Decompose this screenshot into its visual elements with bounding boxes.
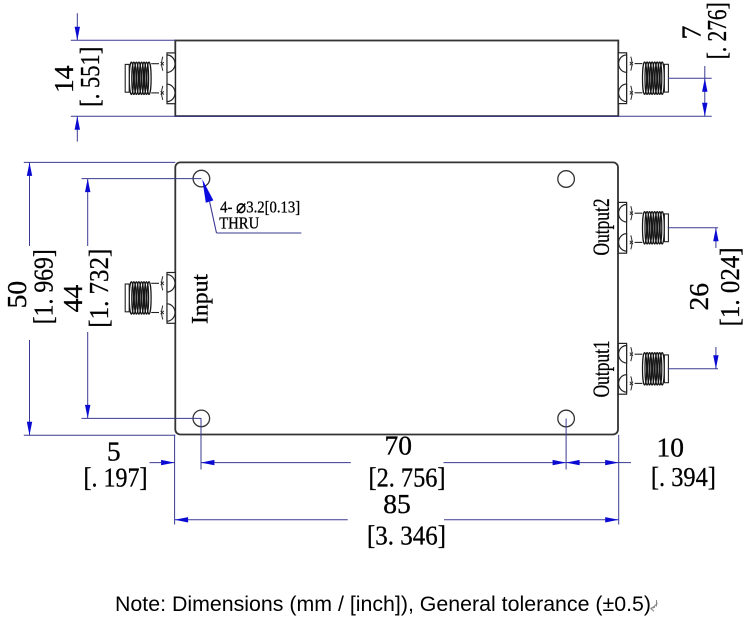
svg-text:[3. 346]: [3. 346] — [367, 520, 446, 551]
svg-text:Note: Dimensions (mm / [inch]): Note: Dimensions (mm / [inch]), General … — [115, 592, 651, 616]
svg-text:Output1: Output1 — [589, 340, 614, 397]
dimension 14 [.551] extension lines — [71, 39, 176, 41]
paragraph return mark — [651, 600, 658, 611]
dimension 14 [.551] lines and arrows — [76, 13, 78, 40]
svg-text:[. 197]: [. 197] — [84, 462, 148, 493]
svg-text:26: 26 — [683, 283, 714, 311]
extension line body left edge — [174, 435, 176, 525]
mounting hole bottom-right — [558, 410, 575, 427]
front view body — [175, 162, 618, 434]
svg-text:[. 394]: [. 394] — [651, 461, 716, 492]
svg-text:Input: Input — [188, 273, 213, 324]
extension line left hole center — [200, 418, 202, 469]
svg-text:10: 10 — [657, 431, 685, 462]
dimension 10 [.394] line and arrows — [566, 462, 619, 464]
svg-text:Output2: Output2 — [589, 199, 614, 256]
dimension 7 [.276] line and arrows — [704, 66, 706, 116]
leader line — [210, 202, 217, 233]
front view input connector — [125, 273, 175, 324]
svg-text:[. 551]: [. 551] — [74, 47, 105, 107]
dimension 44 [1.732] extension lines — [82, 178, 202, 180]
top view body — [175, 41, 618, 117]
svg-text:85: 85 — [383, 488, 411, 519]
dimension 5 [.197] line and arrow — [150, 462, 175, 464]
svg-text:70: 70 — [384, 430, 412, 461]
mounting hole bottom-left — [193, 410, 210, 427]
dimension 50 [1.969] extension lines — [24, 161, 176, 163]
front view output1 connector — [618, 343, 668, 394]
top view right SMA connector — [618, 53, 668, 104]
dimension 26 [1.024] extension lines — [668, 227, 718, 229]
dimension 26 [1.024] line and arrows — [715, 228, 717, 248]
mounting hole top-left — [193, 170, 210, 187]
dimension 50 [1.969] line and arrows — [29, 162, 31, 246]
svg-text:THRU: THRU — [219, 214, 259, 233]
svg-text:[1. 024]: [1. 024] — [714, 247, 745, 326]
leader arrow to top-left hole — [202, 179, 213, 203]
top view left SMA connector — [125, 53, 175, 104]
dimension 85 [3.346] line and arrows — [175, 519, 348, 521]
front view output2 connector — [618, 202, 668, 253]
dimension 70 [2.756] line and arrows — [201, 462, 351, 464]
extension line right hole center — [565, 419, 567, 470]
extension line body right edge — [618, 435, 620, 525]
svg-text:[1. 969]: [1. 969] — [28, 249, 59, 324]
dimension 7 [.276] extension line (connector center) — [668, 77, 712, 79]
mounting hole top-right — [558, 171, 575, 188]
dimension 44 [1.732] line and arrows — [87, 179, 89, 246]
svg-text:[. 276]: [. 276] — [701, 2, 732, 59]
svg-text:[1. 732]: [1. 732] — [83, 249, 114, 328]
